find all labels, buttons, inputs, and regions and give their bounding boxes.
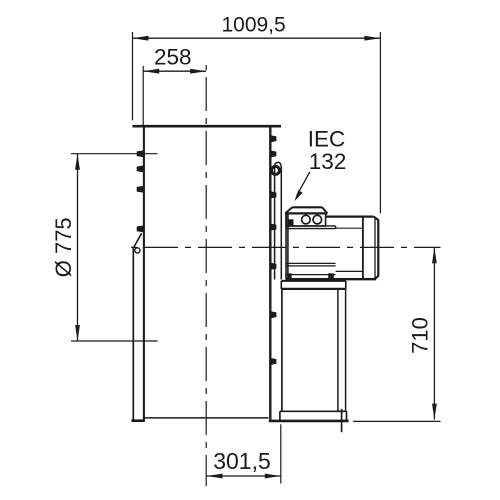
- left wall bolt 3: [137, 186, 144, 193]
- svg-text:301,5: 301,5: [213, 448, 271, 474]
- motor body-cowl separator: [362, 217, 364, 280]
- inlet flange slant: [134, 233, 142, 247]
- housing foot base: [131, 419, 145, 422]
- fan housing right wall: [269, 127, 271, 420]
- right wall bolt 6: [271, 311, 276, 318]
- junction box lid right slant: [322, 207, 327, 213]
- junction box clamp: [288, 219, 294, 225]
- motor cowl chamfer top: [374, 217, 379, 220]
- pedestal base plate: [280, 410, 347, 412]
- dimension 301,5 right extension: [280, 424, 282, 483]
- motor cowl chamfer bottom: [374, 276, 379, 279]
- svg-text:IEC: IEC: [308, 127, 346, 152]
- fan housing left wall: [143, 127, 145, 420]
- dimension D775 line: [77, 154, 79, 341]
- motor cowl right edge: [377, 220, 379, 277]
- right wall bolt 2: [271, 151, 276, 158]
- dimension 710 line: [433, 247, 435, 419]
- housing bottom edge: [144, 417, 269, 419]
- motor flange lines: [285, 214, 287, 280]
- svg-text:258: 258: [154, 45, 192, 70]
- dimension 301,5 line: [206, 475, 281, 477]
- fan housing top line: [132, 125, 281, 128]
- motor junction box: [286, 214, 325, 226]
- centerline horizontal (fan axis): [124, 246, 441, 248]
- pedestal mounting plate: [281, 280, 346, 282]
- svg-text:710: 710: [408, 317, 433, 354]
- junction box lid top: [292, 206, 322, 208]
- IEC 132 leader line: [297, 172, 310, 195]
- dimension D775 extension lines: [71, 153, 158, 155]
- motor cowl inner line: [374, 219, 376, 278]
- junction box gland hole 2: [313, 215, 322, 224]
- motor bracket bolt hole: [272, 166, 280, 174]
- motor top line: [326, 216, 374, 218]
- inlet flange outer line: [132, 247, 134, 419]
- right wall bolt 7: [271, 358, 276, 365]
- right wall bolt 5: [271, 263, 276, 270]
- inlet flange bolt hole: [135, 248, 140, 253]
- pedestal base right stub: [341, 409, 343, 432]
- dimension 258 line: [143, 70, 206, 72]
- motor bottom line: [286, 278, 376, 280]
- pedestal left wall: [281, 289, 283, 411]
- right wall bolt 4: [271, 224, 276, 231]
- right wall bolt 3: [271, 192, 276, 199]
- dimension 710 bottom extension: [353, 420, 441, 422]
- centerline vertical (outlet axis): [205, 65, 207, 486]
- junction box lid left slant: [285, 207, 292, 213]
- motor foot pad left: [288, 273, 291, 278]
- motor bracket strip: [275, 162, 282, 279]
- svg-text:Ø 775: Ø 775: [51, 217, 76, 277]
- svg-text:1009,5: 1009,5: [221, 13, 285, 36]
- ground base thick line: [269, 420, 349, 423]
- motor platform lines: [286, 225, 335, 227]
- svg-text:132: 132: [309, 149, 347, 174]
- dimension 1009,5 extension lines: [132, 32, 134, 120]
- dimension 258 extension line: [142, 66, 144, 126]
- pedestal right wall lines: [337, 289, 339, 411]
- left wall bolt 4: [137, 226, 144, 233]
- motor foot pad right: [328, 273, 334, 278]
- junction box gland hole 1: [302, 215, 311, 224]
- dimension 1009,5 line: [133, 37, 381, 39]
- left wall bolt 2: [137, 166, 144, 173]
- left wall bolt 1: [137, 150, 144, 157]
- motor body rib lines: [286, 262, 335, 264]
- junction box lid bottom: [285, 212, 327, 214]
- right wall bolt 1: [271, 135, 276, 142]
